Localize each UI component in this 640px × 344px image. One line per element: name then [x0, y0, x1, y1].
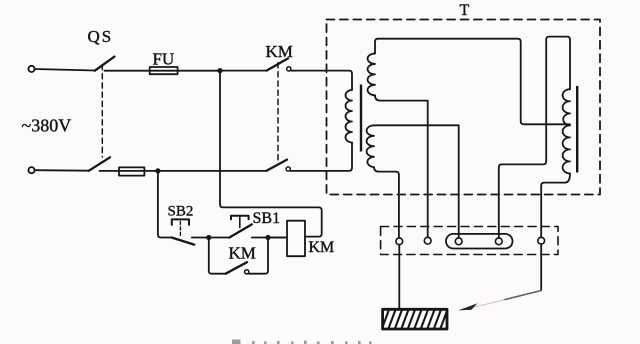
mechanical link QS [101, 65, 103, 158]
svg-text:T: T [460, 2, 470, 19]
svg-text:FU: FU [153, 49, 175, 68]
wire junction to KM contact 2 [158, 170, 267, 172]
svg-text:KM: KM [266, 42, 293, 61]
wire terminal 5 to electrode [540, 244, 542, 290]
wire secondary lower bottom lead W4 [374, 167, 399, 238]
wire QS to FU2 [100, 170, 158, 172]
pushbutton SB2 stem [179, 222, 181, 237]
wire L2 to QS [35, 169, 89, 172]
wire self-hold branch left [209, 238, 226, 274]
terminal 2 [424, 237, 431, 244]
wire SB1 to coil node [252, 237, 287, 239]
terminal 5 [538, 237, 545, 244]
fuse FU2 [119, 167, 144, 175]
contactor KM main contact 1 blade [267, 58, 288, 70]
pushbutton SB2 blade (NC stop) [172, 238, 195, 245]
electrode lead slanted (dark near corner) [504, 291, 541, 300]
knife switch QS pole 1 blade [95, 57, 115, 71]
wire L1 to QS [35, 69, 95, 71]
transformer T secondary lower section [367, 125, 374, 167]
workpiece hatching [381, 307, 455, 331]
wire right coil top jumper lead [499, 37, 570, 238]
svg-text:~380V: ~380V [22, 116, 72, 136]
wire self-hold branch right [249, 238, 268, 274]
node junction bottom line [155, 168, 160, 173]
autotransformer coil right [563, 89, 570, 173]
svg-text:KM: KM [309, 239, 335, 256]
pushbutton SB1 blade (NO start) [229, 224, 251, 237]
contactor KM main contact 2 blade [267, 160, 288, 171]
terminal L2 [28, 167, 34, 173]
wire terminal 1 to workpiece [398, 245, 400, 310]
wire KM contact 2 to transformer primary bottom [291, 143, 353, 171]
terminal 4 [495, 238, 502, 245]
terminal board dashed box [381, 227, 558, 255]
svg-text:QS: QS [88, 27, 114, 46]
contactor coil KM [287, 221, 305, 257]
pushbutton SB1 stem [239, 216, 241, 228]
pushbutton SB2 cap [172, 219, 189, 225]
mechanical link KM [277, 63, 279, 164]
node junction self-hold left [206, 235, 211, 240]
contactor KM auxiliary contact fixed point [245, 270, 249, 274]
wire QS to FU [105, 70, 221, 72]
wire junction to KM contact [220, 70, 267, 72]
wire right coil bottom lead [541, 173, 570, 237]
wire secondary upper bottom lead W2 [375, 95, 428, 237]
terminal 1 [396, 238, 403, 245]
svg-text:SB1: SB1 [253, 210, 281, 227]
node junction top line [217, 68, 222, 73]
transformer T core left [360, 85, 362, 152]
fuse FU1 [150, 67, 178, 74]
wire control tap from bottom phase [158, 171, 172, 238]
transformer T secondary upper section [368, 54, 375, 96]
transformer T primary winding [346, 90, 353, 143]
pushbutton SB1 cap [231, 216, 249, 220]
contactor KM main contact 2 fixed point [286, 167, 290, 171]
contactor KM main contact 1 fixed point [287, 67, 291, 71]
wire coil left to node [268, 237, 287, 239]
transformer T core right [576, 86, 578, 173]
svg-text:SB2: SB2 [168, 204, 194, 220]
electrode lead slanted (faded middle) [475, 300, 504, 307]
node junction self-hold right [265, 235, 270, 240]
caption remnant (cropped grey text) [232, 340, 372, 344]
electrode arrow tip [458, 303, 477, 310]
terminal 3 [455, 238, 462, 245]
terminal L1 [28, 66, 34, 72]
shorting link terminals 3-4 [446, 234, 513, 249]
knife switch QS pole 2 blade [89, 157, 110, 171]
wire control tap from top phase [220, 71, 322, 237]
wire KM contact to transformer primary top [291, 71, 352, 90]
svg-text:KM: KM [229, 244, 256, 263]
contactor KM auxiliary contact blade [226, 262, 247, 274]
transformer T dashed enclosure [327, 20, 601, 195]
wire SB2 to SB1 [192, 237, 230, 239]
wire secondary lower top lead W3 [374, 125, 459, 238]
wire secondary upper top lead W1 [375, 39, 570, 125]
